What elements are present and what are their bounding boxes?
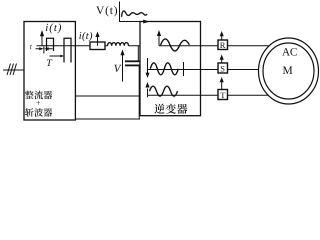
contactor box S <box>218 63 228 73</box>
V(t) inset waveform squiggle <box>122 11 148 17</box>
svg-text:V(t): V(t) <box>96 5 118 17</box>
box T arrow stem <box>221 82 223 90</box>
wire: bus return <box>75 95 140 97</box>
V arrow stem <box>122 55 124 82</box>
wire row2 baseline inside inverter <box>148 69 201 71</box>
wire phase S <box>201 69 259 71</box>
box S arrowhead <box>220 55 224 60</box>
ac mains hatch wire <box>3 69 24 71</box>
motor outer circle <box>259 38 319 104</box>
svg-text:S: S <box>220 64 225 74</box>
inductor L <box>108 43 129 46</box>
capacitor C top lead <box>137 46 139 61</box>
text rectifier+chopper <box>25 91 52 117</box>
inverter row2 axis stem <box>147 58 149 73</box>
row2 end tick <box>183 62 185 76</box>
svg-text:R: R <box>220 40 226 50</box>
inverter row1 sine <box>161 39 190 51</box>
wire phase R <box>201 45 270 47</box>
V(t) axis arrowhead <box>143 20 149 24</box>
row2 axis arrowhead (down) <box>146 73 150 78</box>
svg-text:AC: AC <box>282 47 297 59</box>
waveform axis (chopper i(t)) <box>41 35 43 46</box>
svg-text:i(t): i(t) <box>45 22 62 34</box>
inverter block <box>140 22 201 116</box>
row3 axis arrowhead <box>145 82 149 88</box>
pulse 1 <box>47 38 54 51</box>
pulse 2 <box>64 38 71 62</box>
box R arrowhead <box>220 31 224 36</box>
t dim arrowheads <box>39 47 49 50</box>
svg-text:i(t): i(t) <box>79 31 93 42</box>
wire phase T <box>201 94 269 96</box>
current sensor box <box>90 42 105 50</box>
contactor box R <box>218 40 228 50</box>
wire row3 baseline inside inverter <box>148 94 201 96</box>
t dimension lines <box>36 47 53 54</box>
inverter row1 axis <box>158 36 160 46</box>
wire row1 baseline inside inverter <box>159 45 201 47</box>
sensor arrowhead <box>95 32 99 38</box>
wire: DC link top (waveform baseline through block to inverter) <box>37 45 141 47</box>
capacitor C bottom lead <box>138 66 140 119</box>
text inverter <box>154 104 187 114</box>
row1 axis arrowhead <box>157 30 161 36</box>
contactor box T <box>218 90 228 100</box>
V arrowhead <box>120 50 124 56</box>
svg-text:+: + <box>36 99 41 108</box>
box R arrow stem <box>221 35 223 40</box>
V(t) inset axis <box>120 2 141 22</box>
wire: bottom link <box>75 118 140 120</box>
motor inner circle <box>263 43 314 99</box>
capacitor plates <box>125 60 140 62</box>
T dim arrowhead <box>60 55 64 58</box>
ac mains 3-phase ticks <box>7 64 17 76</box>
inverter row2 sine <box>150 63 178 75</box>
box S arrow stem <box>221 59 223 64</box>
T dimension line <box>50 55 62 57</box>
svg-text:M: M <box>283 65 293 77</box>
box T arrowhead <box>220 77 224 82</box>
rectifier-chopper block <box>24 22 75 121</box>
sensor arrow stem <box>97 36 99 46</box>
svg-text:T: T <box>220 90 226 100</box>
waveform axis arrowhead <box>40 30 44 36</box>
inverter row3 axis stem <box>147 89 149 98</box>
inverter row3 sine <box>150 86 178 96</box>
